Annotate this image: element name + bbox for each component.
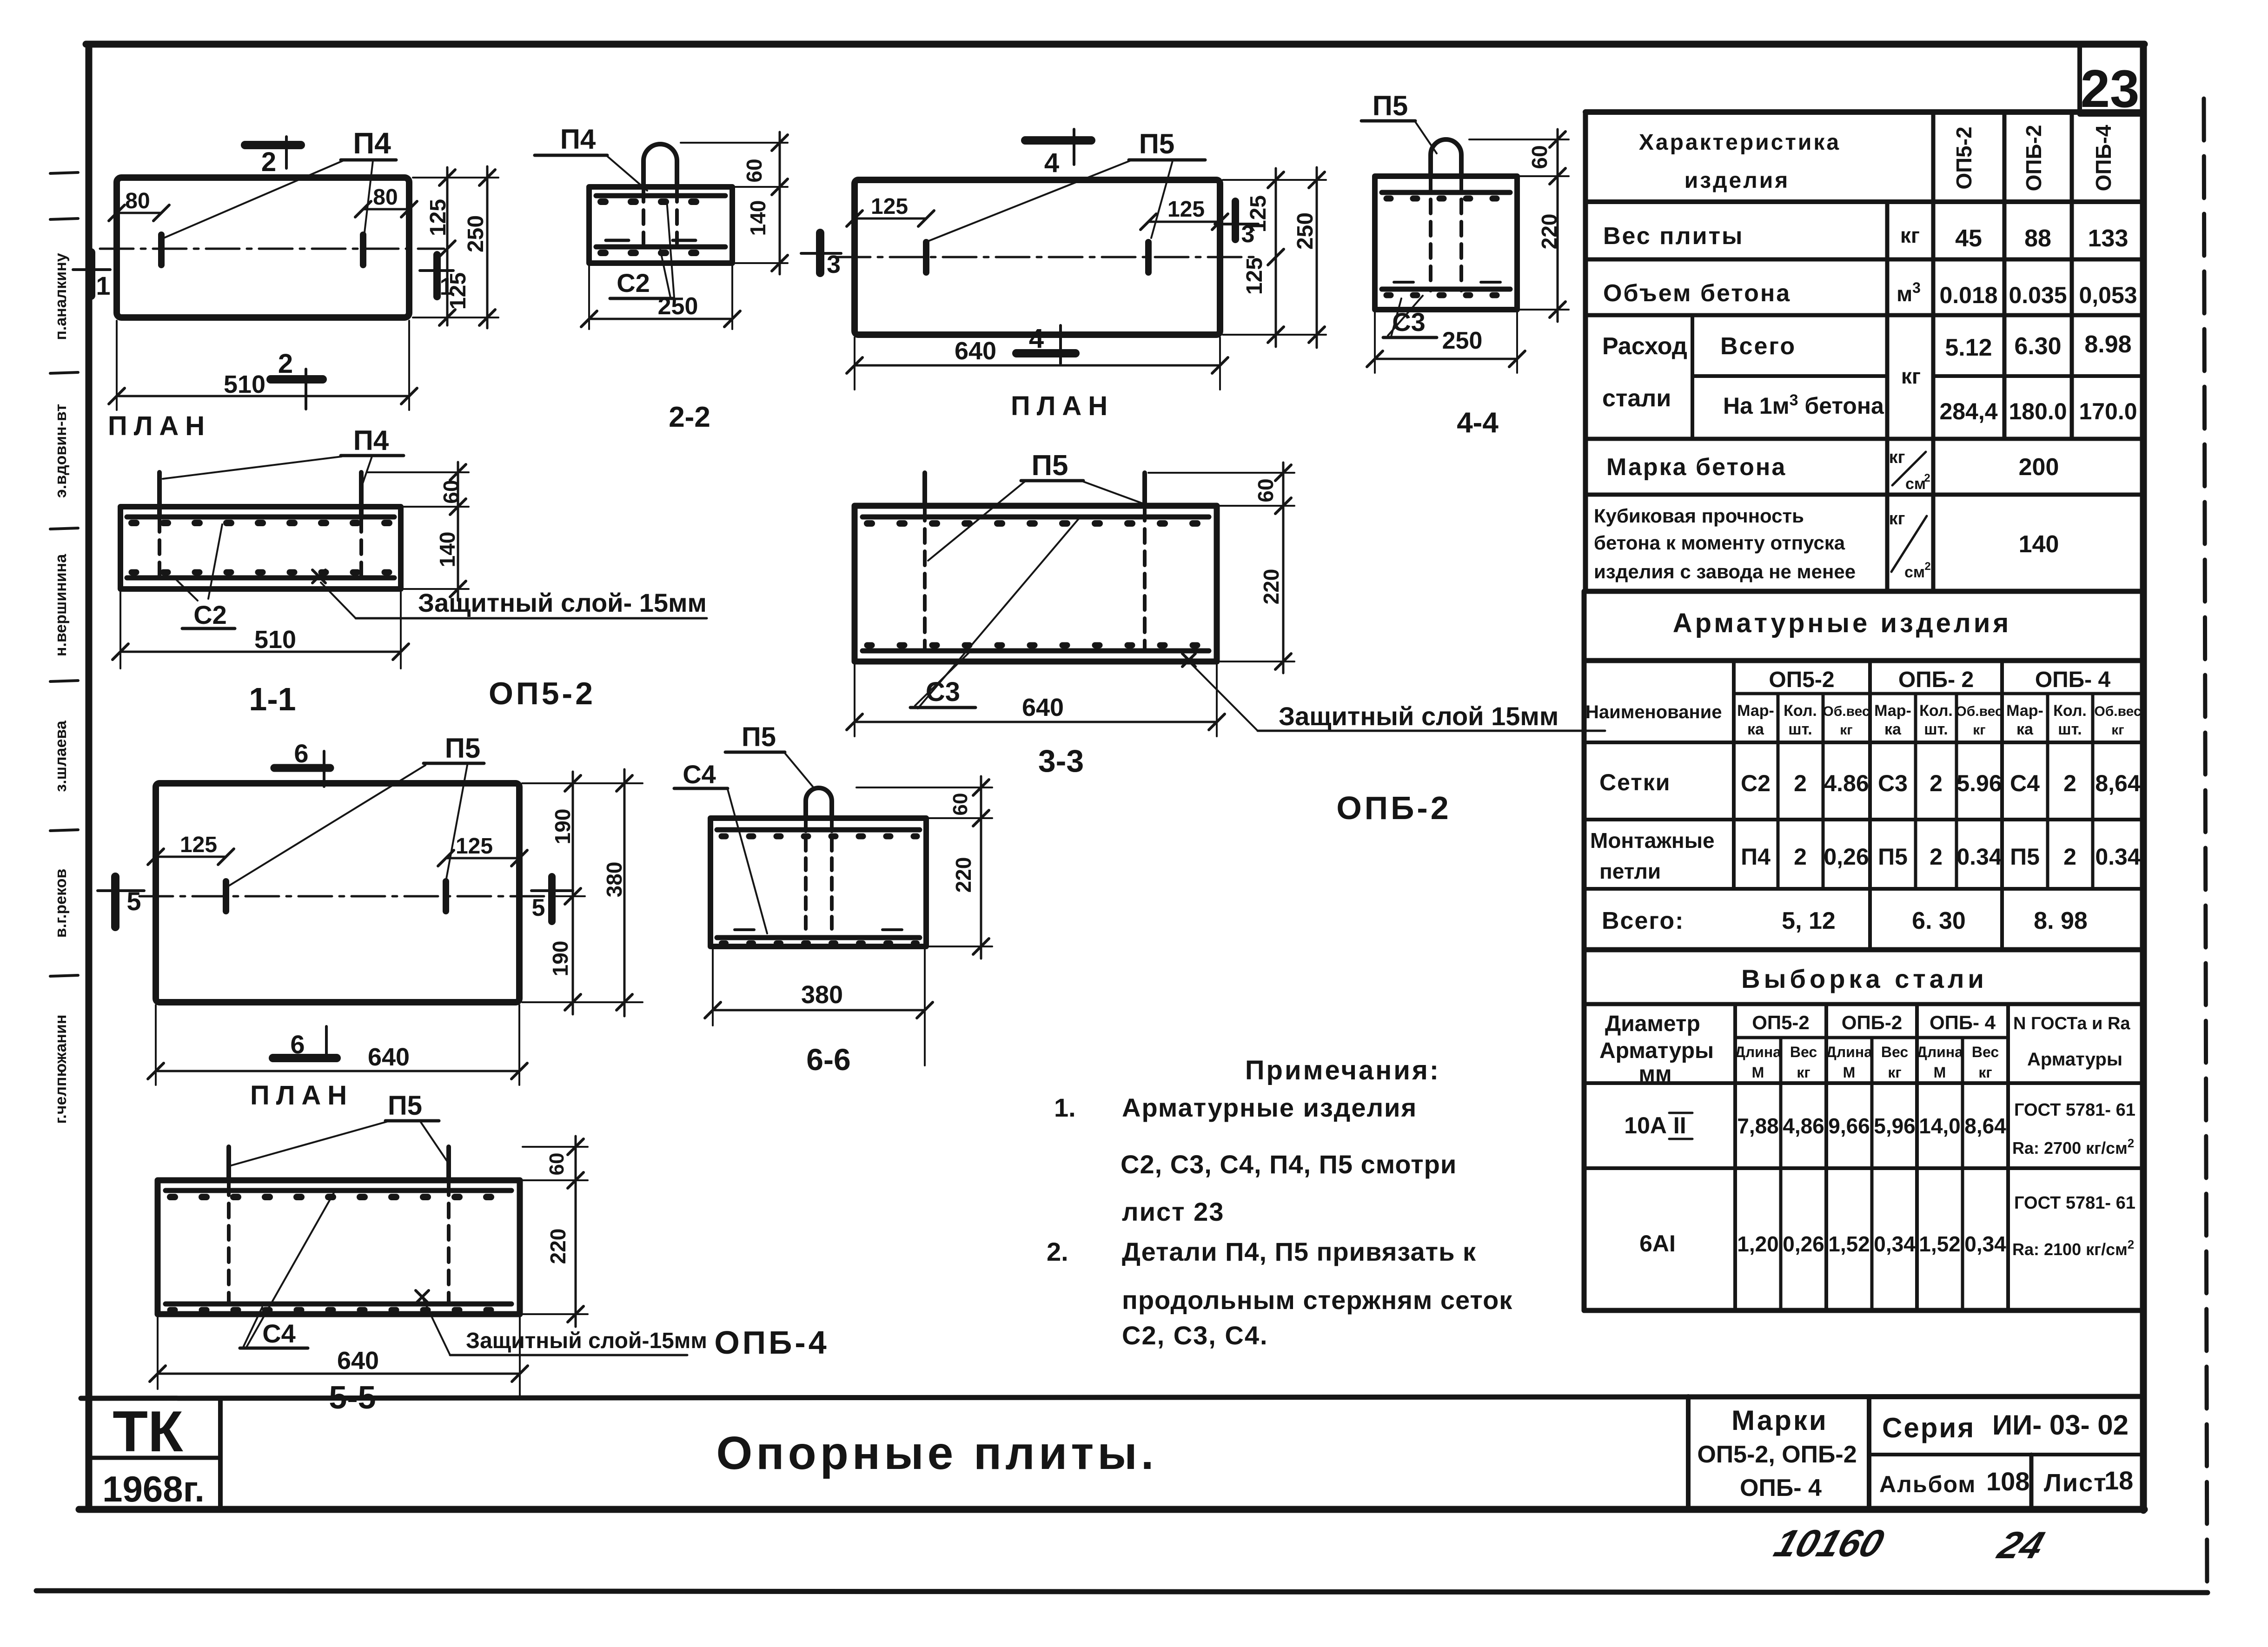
svg-text:ОПБ- 2: ОПБ- 2 bbox=[1898, 668, 1974, 692]
svg-text:Лист: Лист bbox=[2044, 1469, 2107, 1497]
title block Серия cell bbox=[1869, 1396, 2129, 1509]
svg-text:8,64: 8,64 bbox=[1964, 1114, 2006, 1138]
svg-text:п.аналкину: п.аналкину bbox=[52, 253, 70, 340]
svg-text:1968г.: 1968г. bbox=[102, 1468, 205, 1509]
svg-text:Марка бетона: Марка бетона bbox=[1606, 454, 1786, 481]
svg-text:60: 60 bbox=[949, 793, 972, 816]
svg-text:С4: С4 bbox=[262, 1319, 296, 1348]
svg-text:П5: П5 bbox=[1373, 90, 1408, 121]
svg-text:6-6: 6-6 bbox=[806, 1042, 850, 1077]
sheet frame top border bbox=[86, 41, 2144, 48]
svg-text:Кол.: Кол. bbox=[1784, 702, 1817, 720]
svg-text:лист 23: лист 23 bbox=[1122, 1197, 1224, 1226]
svg-text:7,88: 7,88 bbox=[1737, 1114, 1779, 1138]
table 2 row Всего bbox=[1602, 907, 2088, 934]
svg-text:380: 380 bbox=[602, 862, 626, 898]
dimension 640 bottom (plan ОПБ-4) bbox=[148, 1005, 527, 1085]
section mark 3 left bbox=[801, 233, 841, 278]
svg-text:N ГОСТа и Rа: N ГОСТа и Rа bbox=[2013, 1014, 2130, 1033]
section mark 3 right bbox=[1215, 201, 1258, 248]
svg-text:Мар-: Мар- bbox=[2006, 702, 2043, 720]
section 1-1 concrete outline bbox=[120, 507, 401, 589]
dimension 640 bottom (3-3) bbox=[847, 665, 1225, 736]
section 4-4 concrete outline bbox=[1375, 176, 1517, 310]
svg-text:Монтажные: Монтажные bbox=[1590, 828, 1715, 853]
mesh С3 bottom chord (4-4) bbox=[1382, 287, 1510, 292]
svg-text:кг: кг bbox=[1901, 364, 1921, 388]
page number box bbox=[2080, 46, 2143, 114]
svg-text:шт.: шт. bbox=[2058, 721, 2082, 738]
mesh С3 top chord (3-3) bbox=[862, 515, 1209, 520]
svg-text:60: 60 bbox=[1253, 478, 1278, 502]
svg-text:Объем бетона: Объем бетона bbox=[1603, 280, 1791, 307]
svg-text:Всего:: Всего: bbox=[1602, 907, 1684, 934]
svg-text:Всего: Всего bbox=[1720, 333, 1796, 360]
svg-text:4: 4 bbox=[1044, 148, 1059, 178]
svg-text:С4: С4 bbox=[2010, 770, 2040, 796]
svg-text:6.30: 6.30 bbox=[2014, 333, 2061, 360]
label С2 with leaders (1-1) bbox=[176, 524, 235, 629]
svg-text:С2, С3, С4, П4, П5 смотри: С2, С3, С4, П4, П5 смотри bbox=[1121, 1150, 1457, 1179]
dimension 125 left (plan ОПБ-2) bbox=[847, 194, 934, 226]
svg-text:9,66: 9,66 bbox=[1828, 1114, 1870, 1138]
svg-text:Диаметр: Диаметр bbox=[1605, 1012, 1700, 1036]
svg-text:2: 2 bbox=[1930, 770, 1943, 796]
svg-text:ОПБ-4: ОПБ-4 bbox=[2091, 125, 2115, 191]
svg-text:Расход: Расход bbox=[1602, 333, 1687, 360]
section 3-3 concrete outline bbox=[855, 506, 1217, 661]
section mark 2 top bbox=[245, 137, 301, 177]
svg-text:ПЛАН: ПЛАН bbox=[108, 411, 211, 441]
svg-text:1,20: 1,20 bbox=[1737, 1232, 1779, 1256]
protective layer note (3-3) bbox=[1182, 654, 1605, 731]
title block Марки cell bbox=[1688, 1396, 1857, 1509]
dimension 640 bottom (5-5) bbox=[150, 1317, 528, 1396]
loop anchor dashes (6-6) bbox=[735, 928, 754, 931]
mesh С4 top chord (6-6) bbox=[717, 827, 920, 833]
svg-text:640: 640 bbox=[955, 337, 996, 365]
svg-text:1,52: 1,52 bbox=[1919, 1232, 1961, 1256]
mesh С2 bottom chord (1-1) bbox=[127, 575, 394, 581]
svg-text:0,26: 0,26 bbox=[1783, 1232, 1824, 1256]
svg-text:Вес плиты: Вес плиты bbox=[1603, 223, 1744, 250]
section mark 1 right bbox=[420, 255, 453, 300]
svg-text:2: 2 bbox=[2063, 844, 2076, 870]
lifting loop П4 (2-2) bbox=[643, 144, 677, 187]
table 1 row Марка бетона bbox=[1606, 448, 2059, 493]
svg-text:Защитный слой 15мм: Защитный слой 15мм bbox=[1279, 701, 1558, 731]
svg-text:ОП5-2: ОП5-2 bbox=[489, 676, 596, 711]
svg-text:0.035: 0.035 bbox=[2009, 282, 2067, 308]
svg-text:8,64: 8,64 bbox=[2095, 770, 2141, 796]
svg-text:140: 140 bbox=[2019, 531, 2059, 558]
svg-text:220: 220 bbox=[951, 857, 975, 893]
mesh С4 top hooks (6-6) bbox=[722, 833, 917, 840]
svg-text:0,34: 0,34 bbox=[1964, 1232, 2006, 1256]
svg-text:2: 2 bbox=[278, 349, 293, 379]
dimension 80 left bbox=[109, 189, 169, 221]
svg-text:5.96: 5.96 bbox=[1956, 770, 2002, 796]
dimension chain 60/140 right of 1-1 bbox=[367, 462, 469, 601]
section 5-5 concrete outline bbox=[158, 1180, 520, 1314]
mesh С3 bottom chord (3-3) bbox=[862, 648, 1209, 654]
table 3 head ГОСТ column bbox=[2013, 1014, 2130, 1070]
svg-text:Защитный слой- 15мм: Защитный слой- 15мм bbox=[418, 588, 707, 617]
svg-text:шт.: шт. bbox=[1924, 721, 1948, 738]
svg-text:125: 125 bbox=[446, 272, 471, 310]
svg-text:Об.вес: Об.вес bbox=[1956, 704, 2003, 719]
table 1 row Кубиковая прочность bbox=[1594, 505, 2059, 582]
svg-text:2: 2 bbox=[1794, 770, 1807, 796]
svg-text:П4: П4 bbox=[353, 126, 391, 160]
table 1 header text Характеристика изделия bbox=[1639, 130, 1841, 193]
svg-text:М: М bbox=[1934, 1064, 1946, 1081]
table 2 row Сетки bbox=[1599, 769, 2141, 796]
svg-text:ка: ка bbox=[2016, 721, 2034, 738]
svg-text:Длина: Длина bbox=[1735, 1044, 1781, 1060]
svg-text:640: 640 bbox=[337, 1347, 379, 1375]
mesh С2 top chord (1-1) bbox=[127, 515, 394, 520]
svg-text:60: 60 bbox=[742, 159, 766, 182]
svg-text:Мар-: Мар- bbox=[1874, 702, 1911, 720]
svg-text:190: 190 bbox=[548, 941, 572, 977]
dimension chain 60/220 right of 3-3 bbox=[1148, 463, 1294, 673]
label С4 with leader (6-6) bbox=[674, 760, 767, 933]
svg-text:П5: П5 bbox=[742, 722, 776, 752]
label П5 with leaders (plan ОПБ-4) bbox=[229, 733, 484, 886]
table 3 row 6АI bbox=[1639, 1193, 2135, 1259]
svg-text:Об.вес: Об.вес bbox=[2094, 704, 2141, 719]
dimension 250 bottom (2-2) bbox=[581, 266, 740, 329]
svg-text:0.018: 0.018 bbox=[1939, 282, 1997, 308]
table 2 row Монтажные петли bbox=[1590, 828, 2141, 883]
svg-text:5.12: 5.12 bbox=[1945, 334, 1992, 361]
signature strip tick 5 bbox=[50, 681, 78, 681]
table 3 sub heads Длина/Вес bbox=[1735, 1044, 1999, 1081]
svg-text:мм: мм bbox=[1638, 1062, 1671, 1086]
svg-text:4,86: 4,86 bbox=[1783, 1114, 1824, 1138]
mesh С2 top hooks (2-2) bbox=[601, 198, 722, 205]
svg-text:П5: П5 bbox=[388, 1091, 422, 1121]
section mark 6 top bbox=[274, 739, 330, 787]
svg-text:Длина: Длина bbox=[1917, 1044, 1963, 1060]
loop П5 embedded legs dashed (3-3) bbox=[923, 507, 927, 649]
svg-text:4: 4 bbox=[1029, 324, 1044, 354]
svg-text:2: 2 bbox=[261, 147, 276, 177]
signature strip tick 3 bbox=[50, 372, 78, 373]
loop П4 legs above surface (1-1) bbox=[157, 472, 162, 517]
svg-text:6: 6 bbox=[294, 739, 308, 768]
lifting loop П4 mark left (plan) bbox=[158, 235, 165, 265]
svg-text:н.вершинина: н.вершинина bbox=[52, 554, 70, 656]
lifting loop П5 (6-6) bbox=[806, 788, 832, 818]
section 6-6 concrete outline bbox=[710, 818, 926, 946]
svg-text:П4: П4 bbox=[560, 124, 596, 155]
svg-text:5: 5 bbox=[532, 894, 545, 921]
plate outline — plan ОПБ-2 bbox=[855, 180, 1220, 335]
label П5 with leader (6-6) bbox=[725, 722, 813, 787]
svg-text:кг: кг bbox=[1797, 1064, 1810, 1081]
table 3 head Диаметр арматуры мм bbox=[1599, 1012, 1714, 1086]
svg-text:180.0: 180.0 bbox=[2009, 398, 2067, 424]
table 2 sub heads bbox=[1737, 702, 2141, 738]
svg-text:ОПБ-2: ОПБ-2 bbox=[2022, 125, 2046, 192]
label П5 with leaders (3-3) bbox=[928, 450, 1147, 561]
svg-text:Детали П4, П5 привязать к: Детали П4, П5 привязать к bbox=[1122, 1237, 1476, 1266]
protective layer note (1-1) bbox=[312, 570, 707, 618]
svg-text:Арматурные изделия: Арматурные изделия bbox=[1122, 1093, 1417, 1122]
lifting loop П5 mark left (plan ОПБ-2) bbox=[923, 242, 929, 272]
svg-text:2: 2 bbox=[1930, 844, 1943, 870]
title block bottom line bbox=[79, 1506, 2144, 1513]
label С4 with leaders (5-5) bbox=[240, 1193, 334, 1348]
svg-text:М: М bbox=[1843, 1064, 1856, 1081]
svg-text:220: 220 bbox=[546, 1229, 570, 1264]
svg-text:250: 250 bbox=[658, 293, 698, 320]
mesh С2 top hooks (1-1) bbox=[132, 520, 391, 526]
svg-text:8. 98: 8. 98 bbox=[2034, 907, 2088, 934]
svg-text:133: 133 bbox=[2088, 225, 2129, 252]
svg-text:5,96: 5,96 bbox=[1874, 1114, 1916, 1138]
title block ТК cell divider vertical bbox=[218, 1398, 223, 1509]
svg-text:шт.: шт. bbox=[1788, 721, 1812, 738]
svg-text:250: 250 bbox=[1442, 327, 1483, 354]
svg-text:ПЛАН: ПЛАН bbox=[1011, 391, 1114, 421]
section 2-2 concrete outline bbox=[589, 187, 732, 263]
loop П4 embedded legs dashed (1-1) bbox=[158, 518, 161, 576]
mesh С2 bottom chord (2-2) bbox=[596, 245, 725, 250]
svg-text:4-4: 4-4 bbox=[1457, 407, 1499, 439]
svg-text:60: 60 bbox=[439, 480, 463, 503]
svg-text:2: 2 bbox=[2063, 770, 2076, 796]
svg-text:5, 12: 5, 12 bbox=[1782, 907, 1836, 934]
svg-text:продольным стержням сеток: продольным стержням сеток bbox=[1122, 1285, 1512, 1315]
dimension 250 bottom (4-4) bbox=[1367, 312, 1525, 373]
svg-text:бетона к моменту отпуска: бетона к моменту отпуска bbox=[1594, 532, 1845, 554]
dimension 125 left (plan ОПБ-4) bbox=[148, 833, 234, 865]
svg-text:125: 125 bbox=[1246, 195, 1271, 232]
svg-text:170.0: 170.0 bbox=[2079, 398, 2137, 424]
mesh С3 top hooks (3-3) bbox=[867, 520, 1205, 527]
loop П5 legs above surface (3-3) bbox=[922, 473, 927, 506]
svg-text:10А II: 10А II bbox=[1624, 1112, 1686, 1138]
svg-text:6АI: 6АI bbox=[1639, 1230, 1676, 1257]
svg-text:г.челпюжанин: г.челпюжанин bbox=[52, 1015, 70, 1124]
dimension 80 right bbox=[355, 185, 417, 217]
svg-text:М: М bbox=[1752, 1064, 1764, 1081]
paper edge bottom line bbox=[36, 1591, 2208, 1593]
section mark 5 left bbox=[98, 877, 144, 927]
svg-text:ПЛАН: ПЛАН bbox=[250, 1080, 353, 1111]
svg-text:петли: петли bbox=[1599, 859, 1661, 883]
svg-text:190: 190 bbox=[550, 809, 575, 845]
svg-text:380: 380 bbox=[801, 981, 843, 1009]
svg-text:8.98: 8.98 bbox=[2084, 331, 2131, 358]
svg-text:ГОСТ 5781- 61: ГОСТ 5781- 61 bbox=[2014, 1100, 2135, 1120]
label П4 with leaders bbox=[164, 126, 396, 238]
svg-text:0,053: 0,053 bbox=[2079, 282, 2137, 308]
section mark 6 bottom bbox=[273, 1026, 337, 1060]
right dimension chain 190/190/380 — plan ОПБ-4 bbox=[522, 769, 643, 1016]
mesh С2 top chord (2-2) bbox=[596, 193, 725, 198]
svg-text:2-2: 2-2 bbox=[669, 401, 710, 433]
mesh С4 bottom chord (5-5) bbox=[166, 1302, 511, 1307]
svg-text:ОПБ- 4: ОПБ- 4 bbox=[2035, 668, 2111, 692]
svg-text:Длина: Длина bbox=[1826, 1044, 1872, 1060]
svg-text:45: 45 bbox=[1955, 225, 1982, 252]
svg-text:ОП5-2: ОП5-2 bbox=[1752, 1012, 1810, 1033]
title block Лист cell bbox=[2031, 1455, 2133, 1509]
section mark 4 bottom bbox=[1016, 324, 1075, 364]
svg-text:кг: кг bbox=[1888, 1064, 1901, 1081]
svg-text:Наименование: Наименование bbox=[1585, 702, 1722, 722]
svg-text:1: 1 bbox=[96, 271, 110, 300]
svg-text:ОПБ-2: ОПБ-2 bbox=[1842, 1012, 1902, 1033]
signature strip tick 6 bbox=[50, 830, 78, 831]
svg-text:з.шлаева: з.шлаева bbox=[52, 720, 70, 792]
label П4 with leaders (1-1) bbox=[163, 425, 404, 483]
loop П4 embedded legs dashed (2-2) bbox=[642, 188, 645, 244]
svg-text:640: 640 bbox=[368, 1043, 410, 1071]
svg-text:Кол.: Кол. bbox=[1919, 702, 1953, 720]
dimension 125 right (plan ОПБ-4) bbox=[438, 834, 527, 866]
mesh С3 bottom hooks (4-4) bbox=[1386, 292, 1506, 298]
svg-text:1,52: 1,52 bbox=[1828, 1232, 1870, 1256]
svg-text:0.34: 0.34 bbox=[2095, 844, 2141, 870]
mesh С4 top chord (5-5) bbox=[166, 1188, 511, 1193]
plan ОПБ-2 centre axis line bbox=[837, 256, 1255, 258]
svg-text:ОП5-2: ОП5-2 bbox=[1769, 668, 1834, 692]
svg-text:П4: П4 bbox=[353, 425, 389, 456]
dimension chain 60/220 right of 6-6 bbox=[856, 776, 992, 959]
svg-text:125: 125 bbox=[426, 199, 451, 236]
lifting loop П5 mark left (plan ОПБ-4) bbox=[223, 881, 229, 911]
loop П5 embedded legs dashed (5-5) bbox=[227, 1181, 231, 1302]
sheet frame right border bbox=[2140, 44, 2147, 1510]
svg-text:ка: ка bbox=[1884, 721, 1902, 738]
svg-text:6: 6 bbox=[290, 1030, 305, 1059]
svg-text:На 1м3 бетона: На 1м3 бетона bbox=[1723, 391, 1884, 419]
label П5 with leader (4-4) bbox=[1361, 90, 1437, 153]
table 3 outline and grid bbox=[1584, 1004, 2143, 1310]
svg-text:изделия с завода не менее: изделия с завода не менее bbox=[1594, 561, 1856, 582]
svg-text:ОПБ- 4: ОПБ- 4 bbox=[1930, 1012, 1996, 1033]
svg-text:Сетки: Сетки bbox=[1599, 769, 1671, 795]
svg-text:Вес: Вес bbox=[1790, 1044, 1817, 1060]
table 3 row 10АII bbox=[1624, 1100, 2135, 1158]
svg-text:П5: П5 bbox=[1031, 450, 1068, 482]
svg-text:П5: П5 bbox=[1139, 128, 1175, 159]
sheet frame left border bbox=[86, 44, 93, 1509]
svg-text:Кубиковая прочность: Кубиковая прочность bbox=[1594, 505, 1804, 527]
svg-text:1.: 1. bbox=[1054, 1093, 1076, 1122]
svg-text:кг: кг bbox=[2111, 722, 2124, 738]
svg-text:284,4: 284,4 bbox=[1939, 398, 1997, 424]
svg-text:ОПБ-4: ОПБ-4 bbox=[714, 1324, 829, 1361]
dimension 380 bottom (6-6) bbox=[705, 949, 933, 1065]
section mark 1 left bbox=[73, 252, 111, 300]
svg-text:ОП5-2, ОПБ-2: ОП5-2, ОПБ-2 bbox=[1697, 1441, 1857, 1468]
svg-text:кг: кг bbox=[1978, 1064, 1992, 1081]
svg-text:10160: 10160 bbox=[1769, 1522, 1889, 1565]
svg-text:см: см bbox=[1904, 563, 1925, 581]
signature strip tick 1 bbox=[50, 172, 78, 173]
label П4 with leader (2-2) bbox=[535, 124, 647, 191]
svg-text:Опорные плиты.: Опорные плиты. bbox=[716, 1427, 1157, 1479]
svg-text:ГОСТ 5781- 61: ГОСТ 5781- 61 bbox=[2014, 1193, 2135, 1213]
svg-text:С2: С2 bbox=[617, 268, 650, 298]
label С3 with leaders (4-4) bbox=[1383, 296, 1437, 337]
plate outline — plan ОП5-2 bbox=[117, 178, 409, 317]
dimension chain 60/140 right of 2-2 bbox=[681, 132, 788, 274]
svg-text:в.г.реков: в.г.реков bbox=[52, 869, 70, 938]
svg-text:Мар-: Мар- bbox=[1737, 702, 1774, 720]
svg-text:4.86: 4.86 bbox=[1824, 770, 1869, 796]
note 1 line 1 bbox=[1054, 1093, 1417, 1122]
section mark 4 top bbox=[1025, 129, 1091, 178]
paper edge right line bbox=[2204, 99, 2207, 1591]
title block Альбом cell bbox=[1879, 1467, 2029, 1497]
dimension chain 60/220 right of 5-5 bbox=[523, 1136, 588, 1327]
svg-text:Защитный слой-15мм: Защитный слой-15мм bbox=[466, 1329, 707, 1353]
title block top line bbox=[81, 1396, 2143, 1398]
plan ОПБ-4 centre axis line bbox=[139, 895, 553, 898]
svg-text:С2, С3, С4.: С2, С3, С4. bbox=[1122, 1321, 1268, 1350]
svg-text:250: 250 bbox=[464, 215, 488, 252]
svg-text:2: 2 bbox=[1924, 472, 1930, 484]
mesh С4 bottom hooks (5-5) bbox=[170, 1307, 508, 1313]
svg-text:ОПБ- 4: ОПБ- 4 bbox=[1740, 1475, 1822, 1501]
svg-text:Rа: 2700 кг/см2: Rа: 2700 кг/см2 bbox=[2012, 1136, 2134, 1158]
svg-text:Примечания:: Примечания: bbox=[1245, 1055, 1440, 1085]
mesh С4 bottom hooks (6-6) bbox=[722, 940, 917, 946]
section mark 2 bottom bbox=[271, 349, 323, 409]
note 2 line 1 bbox=[1047, 1237, 1476, 1266]
svg-text:5: 5 bbox=[126, 886, 141, 916]
dimension chain 60/220 right of 4-4 bbox=[1469, 129, 1569, 322]
svg-text:140: 140 bbox=[435, 532, 459, 568]
dimension 510 bottom bbox=[109, 321, 417, 410]
svg-text:3-3: 3-3 bbox=[1038, 743, 1084, 779]
signature strip tick 4 bbox=[50, 528, 78, 529]
right dimension chain 125/125/250 — plan ОП5-2 bbox=[413, 166, 498, 328]
svg-text:кг: кг bbox=[1889, 448, 1905, 467]
label П5 with leaders (plan ОПБ-2) bbox=[929, 128, 1205, 241]
svg-text:Rа: 2100 кг/см2: Rа: 2100 кг/см2 bbox=[2012, 1237, 2134, 1259]
dimension 125 right (plan ОПБ-2) bbox=[1141, 197, 1228, 230]
svg-text:ИИ- 03- 02: ИИ- 03- 02 bbox=[1992, 1409, 2129, 1441]
svg-text:510: 510 bbox=[224, 370, 265, 398]
protective layer note (5-5) bbox=[416, 1290, 707, 1355]
svg-text:ОП5-2: ОП5-2 bbox=[1952, 126, 1976, 189]
plate outline — plan ОПБ-4 bbox=[156, 783, 519, 1002]
loop П5 embedded legs dashed (6-6) bbox=[804, 819, 808, 934]
svg-text:6. 30: 6. 30 bbox=[1912, 907, 1966, 934]
svg-text:П5: П5 bbox=[2010, 844, 2040, 870]
svg-text:125: 125 bbox=[1167, 197, 1205, 222]
mesh С4 top hooks (5-5) bbox=[170, 1194, 508, 1200]
svg-text:Кол.: Кол. bbox=[2053, 702, 2087, 720]
svg-text:Арматуры: Арматуры bbox=[2027, 1049, 2122, 1070]
table 1 row Вес плиты bbox=[1603, 223, 2128, 252]
svg-text:125: 125 bbox=[871, 194, 908, 219]
svg-text:640: 640 bbox=[1022, 694, 1064, 721]
svg-text:Об.вес: Об.вес bbox=[1823, 704, 1870, 719]
svg-text:Арматурные изделия: Арматурные изделия bbox=[1673, 608, 2012, 638]
svg-text:Выборка стали: Выборка стали bbox=[1741, 964, 1988, 993]
svg-text:Арматуры: Арматуры bbox=[1599, 1038, 1714, 1063]
svg-text:Вес: Вес bbox=[1881, 1044, 1908, 1060]
